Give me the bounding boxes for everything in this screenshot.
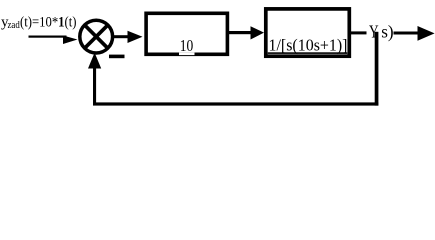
svg-text:zad: zad bbox=[8, 20, 20, 31]
svg-text:10: 10 bbox=[180, 36, 194, 55]
svg-text:(t)=10*1(t): (t)=10*1(t) bbox=[20, 15, 77, 31]
svg-text:1/[s(10s+1)]: 1/[s(10s+1)] bbox=[269, 35, 348, 54]
svg-text:s): s) bbox=[381, 22, 393, 43]
